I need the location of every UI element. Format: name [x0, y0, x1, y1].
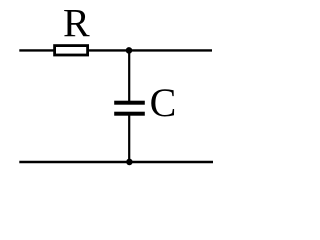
svg-text:C: C — [150, 80, 177, 125]
resistor R — [55, 46, 88, 55]
wire: bottom rail — [19, 161, 213, 163]
svg-text:R: R — [63, 1, 90, 46]
node B (bottom junction dot) — [126, 159, 133, 166]
node A (top junction dot) — [126, 47, 133, 54]
capacitor C top plate — [114, 101, 145, 105]
wire: top rail left segment (input to resistor) — [19, 49, 55, 51]
wire: node A down to capacitor top plate — [128, 50, 130, 101]
wire: node A to top-right output — [129, 49, 212, 51]
wire: capacitor bottom plate to node B — [128, 115, 130, 162]
wire: resistor to node A — [87, 49, 129, 51]
capacitor C bottom plate — [114, 112, 145, 116]
